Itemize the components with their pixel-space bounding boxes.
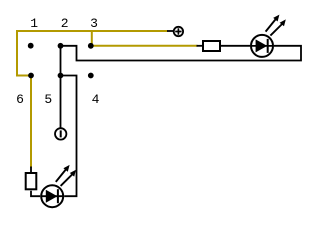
- wire black: node 2 down to node 5: [60, 46, 62, 76]
- wire black: node 5 right, down to bottom LED cathode: [61, 76, 77, 197]
- svg-text:5: 5: [44, 92, 52, 107]
- node 4: [88, 73, 94, 79]
- LED (bottom): [41, 165, 76, 207]
- svg-text:6: 6: [16, 92, 24, 107]
- node 2: [58, 43, 64, 49]
- wire yellow: branch from top line down to node 3: [91, 31, 93, 46]
- svg-text:2: 2: [61, 16, 69, 31]
- svg-text:3: 3: [90, 16, 98, 31]
- wire black: top resistor left lead: [197, 45, 203, 47]
- svg-text:4: 4: [92, 92, 100, 107]
- wire black: bottom LED anode left, up to bottom resistor: [31, 191, 40, 196]
- node 5: [58, 73, 64, 79]
- node 3: [88, 43, 94, 49]
- node 1: [28, 43, 34, 49]
- wire black: node 2 right, down, along bottom, up to LED cathode: [61, 46, 302, 61]
- svg-text:1: 1: [30, 16, 38, 31]
- resistor (top): [203, 41, 220, 51]
- supply plus terminal: [174, 27, 183, 36]
- wire yellow: left loop from supply line down to bottom resistor: [17, 31, 168, 168]
- wire yellow: node 3 to top resistor: [90, 45, 198, 47]
- wire black: node 5 down to meter: [60, 76, 62, 128]
- meter probe: [55, 128, 66, 139]
- node 6: [28, 73, 34, 79]
- wire black: supply stub to plus terminal: [167, 30, 173, 32]
- wire black: top LED anode to resistor: [221, 45, 250, 47]
- LED (top): [251, 15, 286, 57]
- resistor (bottom): [26, 173, 37, 189]
- wire black: bottom resistor top lead: [30, 167, 32, 173]
